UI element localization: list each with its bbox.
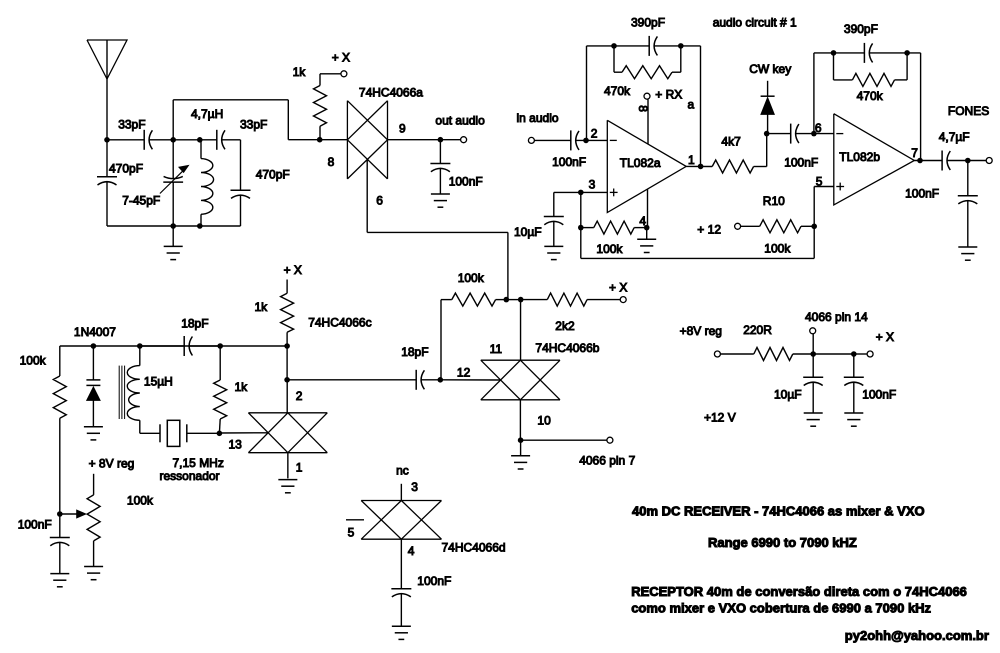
wire VXO supply rail: [60, 345, 287, 347]
wire between junctions: [506, 299, 520, 301]
wire 4066a control pin 6: [366, 158, 368, 160]
capacitor 100nF (4066d): [391, 588, 411, 590]
crystal 7,15 MHz ressonador: [159, 424, 161, 442]
svg-text:TL082a: TL082a: [620, 156, 661, 170]
wire 1k junction down: [286, 346, 288, 380]
node antenna-33pF junction: [104, 137, 110, 143]
capacitor 18pF (to mixer): [415, 370, 417, 390]
wire crystal node to 4066c control pin 13: [219, 432, 268, 434]
wire 33pF#2 to corner: [221, 139, 240, 141]
wire pin 5 stub: [346, 519, 364, 521]
svg-text:3: 3: [589, 178, 596, 192]
svg-text:40m DC RECEIVER - 74HC4066 as: 40m DC RECEIVER - 74HC4066 as mixer & VX…: [632, 504, 925, 519]
svg-text:FONES: FONES: [948, 104, 989, 118]
svg-text:100nF: 100nF: [862, 388, 896, 402]
svg-text:py2ohh@yahoo.com.br: py2ohh@yahoo.com.br: [845, 628, 989, 643]
wire pin 3 input: [554, 191, 608, 193]
terminal +X (2k2): [620, 297, 626, 303]
wire output pin 7: [914, 160, 942, 162]
node FONES junction: [965, 158, 971, 164]
svg-text:6: 6: [815, 121, 822, 135]
svg-text:2: 2: [296, 389, 303, 403]
terminal +12: [735, 223, 741, 229]
svg-text:4066 pin 14: 4066 pin 14: [805, 310, 868, 324]
svg-text:100nF: 100nF: [417, 574, 451, 588]
svg-text:4066 pin 7: 4066 pin 7: [579, 454, 635, 468]
ground FONES: [958, 246, 977, 248]
resistor 470k (TL082b): [833, 53, 835, 80]
terminal 4066 pin 14: [812, 334, 814, 354]
svg-text:74HC4066c: 74HC4066c: [308, 316, 371, 330]
svg-text:6: 6: [376, 194, 383, 208]
terminal +8V reg: [714, 351, 720, 357]
wire 4066b pin 10 output: [519, 400, 521, 440]
capacitor 10uF (psu): [812, 354, 814, 377]
node tank bottom right: [197, 223, 203, 229]
analog switch U1d 74HC4066d: [361, 500, 441, 502]
svg-text:ressonador: ressonador: [160, 469, 220, 483]
wire output pin 1: [686, 165, 712, 167]
ground pin 4: [646, 228, 648, 240]
svg-text:nc: nc: [396, 464, 409, 478]
node 100k-2k2 junction A: [504, 297, 510, 303]
wire 4066a output pin 9: [388, 139, 441, 141]
resistor R10 100k: [741, 225, 760, 227]
svg-text:1: 1: [296, 461, 303, 475]
op-amp pin 8 V+: [647, 100, 649, 145]
svg-text:18pF: 18pF: [401, 345, 428, 359]
svg-text:11: 11: [490, 342, 503, 356]
node pin 10 - 4066 pin 7: [518, 437, 524, 443]
svg-text:74HC4066b: 74HC4066b: [535, 341, 599, 355]
resistor 220R: [720, 353, 753, 355]
svg-text:15µH: 15µH: [144, 375, 173, 389]
svg-text:2k2: 2k2: [555, 319, 575, 333]
wire control to 4066b pin 12: [440, 379, 500, 381]
terminal 4066 pin 7: [607, 437, 613, 443]
op-amp U2a TL082a: [607, 120, 686, 212]
node 18pF-100k junction: [421, 379, 441, 381]
svg-text:100k: 100k: [458, 271, 485, 285]
svg-text:13: 13: [229, 438, 243, 452]
svg-text:7: 7: [911, 146, 918, 160]
svg-text:+ 8V reg: + 8V reg: [89, 457, 135, 471]
inductor 4,7uH: [200, 139, 201, 141]
svg-text:2: 2: [591, 127, 598, 141]
svg-text:3: 3: [411, 480, 418, 494]
wire 470pF right to bottom rail: [240, 195, 242, 227]
wire tank bottom rail: [107, 225, 241, 227]
node psu junction 1: [810, 351, 816, 357]
resistor 2k2: [521, 299, 548, 301]
svg-text:4k7: 4k7: [721, 135, 741, 149]
node fb-b left: [831, 50, 837, 56]
node 100nF-pot junction: [57, 511, 63, 517]
analog switch U1c 74HC4066c: [248, 412, 327, 414]
resistor 100k (VXO left): [59, 346, 61, 376]
capacitor 470pF (right): [231, 189, 251, 191]
terminal out audio: [461, 137, 467, 143]
wire VXO out to 18pF: [287, 379, 416, 381]
wire 100k left leg down: [440, 300, 442, 380]
node CW key junction: [764, 131, 770, 137]
terminal in audio: [528, 137, 534, 143]
svg-text:4,7µF: 4,7µF: [939, 130, 970, 144]
capacitor 4,7uF (FONES): [941, 151, 943, 171]
svg-text:390pF: 390pF: [631, 16, 665, 30]
inductor 15uH with core: [139, 346, 141, 366]
ground 4066b output: [520, 440, 522, 455]
svg-text:+ 12: + 12: [697, 223, 721, 237]
node pin 3 junction: [578, 190, 584, 196]
svg-text:10µF: 10µF: [774, 388, 802, 402]
node pin11 junction: [518, 297, 524, 303]
ground 100nF psu: [844, 412, 863, 414]
wire nc pin 3: [400, 484, 402, 501]
svg-text:a: a: [688, 98, 695, 112]
svg-text:33pF: 33pF: [240, 118, 267, 132]
svg-text:100nF: 100nF: [18, 518, 52, 532]
node tank bottom left: [170, 223, 176, 229]
ground out audio: [431, 193, 450, 195]
svg-text:8: 8: [328, 155, 335, 169]
ground 4066d: [392, 625, 411, 627]
capacitor 100nF (VXO): [59, 514, 61, 537]
svg-text:18pF: 18pF: [181, 317, 208, 331]
op-amp pin 4 to ground: [647, 189, 649, 228]
terminal FONES: [986, 158, 992, 164]
wire to 100nF TL082b: [767, 133, 791, 135]
svg-text:TL082b: TL082b: [839, 150, 880, 164]
wire 4066b pin 11 input: [520, 300, 522, 361]
svg-text:220R: 220R: [743, 323, 772, 337]
svg-text:74HC4066d: 74HC4066d: [442, 541, 506, 555]
svg-text:100nF: 100nF: [449, 175, 483, 189]
svg-text:audio circuit # 1: audio circuit # 1: [713, 16, 797, 30]
node fb right: [678, 43, 684, 49]
svg-text:100nF: 100nF: [784, 156, 818, 170]
wire 33pF to tank: [149, 139, 173, 141]
node tank top right: [197, 137, 203, 143]
svg-text:1k: 1k: [293, 65, 307, 79]
node 1k +X junction: [284, 343, 290, 349]
node 13 junction: [217, 431, 223, 437]
svg-text:+ X: + X: [609, 281, 627, 295]
svg-text:100k: 100k: [20, 354, 47, 368]
node 100k right / pin4: [644, 225, 650, 231]
svg-text:470k: 470k: [857, 89, 884, 103]
ground 4066c: [278, 479, 297, 481]
ground 1N4007: [84, 426, 103, 428]
wire pin 4 down: [400, 539, 402, 588]
svg-text:470k: 470k: [604, 84, 631, 98]
svg-text:10: 10: [537, 414, 551, 428]
wire bottom return rail: [813, 226, 815, 258]
svg-text:8: 8: [636, 105, 650, 112]
svg-text:100nF: 100nF: [552, 155, 586, 169]
node output TL082a: [698, 164, 704, 170]
wire psu rail: [813, 353, 854, 355]
node 1k junction: [217, 343, 223, 349]
svg-text:+ X: + X: [284, 263, 302, 277]
terminal +X (top): [341, 71, 347, 77]
node pin8 junction: [317, 137, 323, 143]
node R10 junction: [811, 224, 817, 230]
svg-text:7-45pF: 7-45pF: [122, 194, 160, 208]
wire crystal to node 13: [187, 432, 220, 434]
wire in audio to cap: [534, 139, 570, 141]
svg-text:R10: R10: [763, 194, 785, 208]
svg-text:1: 1: [688, 153, 695, 167]
wire 4k7 up to diode node: [766, 134, 768, 167]
wire pot wiper arrow: [60, 513, 77, 515]
node pin 2 junction: [284, 377, 290, 383]
svg-text:1N4007: 1N4007: [74, 325, 116, 339]
ground 100nF VXO: [50, 573, 69, 575]
wire right branch down: [240, 140, 242, 190]
wire tank to switch (up and over): [172, 100, 174, 140]
resistor 1k (4066a control pull-up): [314, 86, 327, 127]
capacitor 10uF (pin 3): [553, 192, 555, 216]
wire pin 5 input: [814, 186, 834, 188]
node tank top left: [170, 137, 176, 143]
svg-text:10µF: 10µF: [514, 225, 542, 239]
svg-text:390pF: 390pF: [844, 22, 878, 36]
ground 10uF psu: [804, 412, 823, 414]
ground 10uF: [544, 245, 563, 247]
svg-text:+ X: + X: [876, 330, 894, 344]
resistor 470k (TL082a): [613, 46, 615, 72]
capacitor 100nF (TL082b in): [790, 124, 792, 144]
resistor 1k to +X (VXO): [286, 280, 288, 294]
node output TL082b: [917, 158, 923, 164]
feedback right rail to output: [700, 46, 702, 166]
svg-text:+ X: + X: [332, 51, 350, 65]
svg-text:como mixer e VXO cobertura de: como mixer e VXO cobertura de 6990 a 709…: [631, 601, 931, 616]
svg-text:+8V reg: +8V reg: [680, 324, 722, 338]
svg-text:100nF: 100nF: [905, 187, 939, 201]
svg-text:33pF: 33pF: [118, 118, 145, 132]
node pin 2 TL082a: [583, 138, 589, 144]
node coil junction: [137, 343, 143, 349]
terminal +X psu: [867, 351, 873, 357]
svg-text:+ RX: + RX: [655, 88, 682, 102]
wire 4066c pin 1 to ground: [287, 453, 289, 479]
svg-text:9: 9: [399, 122, 406, 136]
svg-text:74HC4066a: 74HC4066a: [359, 86, 423, 100]
wire tank top: [173, 139, 200, 141]
capacitor 100nF (in audio): [570, 130, 572, 150]
op-amp U2b TL082b: [834, 114, 915, 205]
feedback network TL082a : left rail: [586, 46, 588, 140]
svg-text:out audio: out audio: [435, 114, 485, 128]
analog switch U1a 74HC4066a: [346, 101, 348, 179]
capacitor 100nF (psu): [853, 354, 855, 377]
node pin 6 junction: [811, 131, 817, 137]
variable capacitor 7-45pF: [172, 140, 174, 178]
svg-text:12: 12: [457, 366, 471, 380]
node fb-b right: [904, 50, 910, 56]
node psu junction 2: [851, 351, 857, 357]
wire pin3 node down: [580, 192, 582, 227]
svg-text:in audio: in audio: [517, 111, 559, 125]
capacitor 470pF (left): [106, 140, 108, 177]
capacitor 390pF (TL082b): [863, 43, 865, 63]
svg-text:CW key: CW key: [749, 62, 791, 76]
wire coil to crystal: [140, 432, 160, 434]
node diode junction: [91, 343, 97, 349]
svg-text:+12 V: +12 V: [704, 411, 736, 425]
capacitor 100nF (FONES): [967, 161, 969, 196]
node out audio: [438, 137, 444, 143]
svg-text:100k: 100k: [596, 242, 623, 256]
resistor 100k (mixer bias): [441, 299, 452, 301]
svg-text:RECEPTOR 40m de conversão dire: RECEPTOR 40m de conversão direta com o 7…: [631, 584, 967, 599]
svg-text:1k: 1k: [255, 300, 269, 314]
wire antenna down: [106, 40, 108, 140]
resistor 4k7: [712, 160, 753, 173]
svg-text:4: 4: [408, 544, 415, 558]
svg-text:1k: 1k: [235, 380, 249, 394]
svg-text:470pF: 470pF: [109, 162, 143, 176]
capacitor 33pF (antenna coupling): [143, 130, 145, 150]
svg-text:470pF: 470pF: [256, 168, 290, 182]
node fb left: [611, 43, 617, 49]
wire to 4066c pin 2: [286, 380, 288, 413]
resistor 1k (VXO): [219, 346, 221, 380]
svg-text:5: 5: [348, 526, 355, 540]
wire rail to 33pF: [107, 139, 144, 141]
svg-text:100k: 100k: [764, 242, 791, 256]
feedback right rail b: [920, 53, 922, 161]
wire cap to pin 2: [575, 139, 607, 141]
ground potentiometer: [84, 566, 103, 568]
resistor 100k (TL082a gain): [581, 227, 594, 229]
ground tank: [172, 226, 174, 246]
svg-text:4,7µH: 4,7µH: [191, 107, 223, 121]
svg-text:Range 6990 to 7090 kHZ: Range 6990 to 7090 kHZ: [708, 535, 857, 550]
svg-text:100k: 100k: [127, 494, 154, 508]
capacitor 33pF #2 (to switch): [216, 130, 218, 150]
feedback network TL082b : left rail: [813, 53, 815, 134]
capacitor 18pF (VXO feedback): [140, 345, 184, 347]
analog switch U1b 74HC4066b: [481, 359, 560, 361]
node 100k left: [578, 225, 584, 231]
svg-text:7,15 MHz: 7,15 MHz: [173, 456, 224, 470]
antenna: [87, 40, 127, 79]
feedback top rail: [587, 45, 650, 47]
wire to 33pF #2: [200, 139, 217, 141]
capacitor 100nF (out audio): [439, 140, 441, 164]
feedback top rail b: [814, 52, 865, 54]
capacitor 390pF (TL082a): [648, 36, 650, 56]
